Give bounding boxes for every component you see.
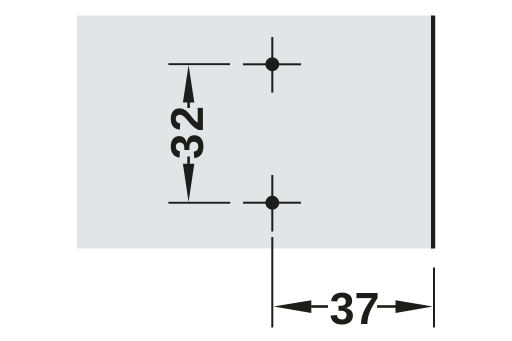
hole H1 dot xyxy=(265,57,279,71)
dim32 top shaft stub xyxy=(187,103,190,109)
dim37 right arrow xyxy=(396,300,433,313)
front edge extension line (right) xyxy=(433,268,435,328)
dim37 left shaft xyxy=(311,305,328,308)
dim32 bottom extension line xyxy=(168,202,230,204)
hole H2 crosshair horizontal xyxy=(243,202,301,204)
dim32 value label "32" (rotated) xyxy=(171,108,204,158)
hole centreline extension (below H2) xyxy=(271,237,273,328)
hole H1 crosshair horizontal xyxy=(243,63,301,65)
dim32 top extension line xyxy=(168,63,230,65)
panel front edge (thick black line) xyxy=(431,16,435,249)
dim37 right shaft xyxy=(377,305,396,308)
dim32 top arrow xyxy=(183,65,194,103)
hole H2 (bottom) crosshair vertical xyxy=(271,175,273,232)
hole H2 dot xyxy=(265,196,279,210)
panel (cabinet side, grey) xyxy=(77,16,431,249)
hole H1 (top) crosshair vertical xyxy=(271,37,273,93)
dim32 bottom shaft stub xyxy=(187,157,190,164)
dim37 value label "37" xyxy=(331,293,378,325)
dim37 left arrow xyxy=(274,300,312,313)
dim32 bottom arrow xyxy=(183,164,194,202)
